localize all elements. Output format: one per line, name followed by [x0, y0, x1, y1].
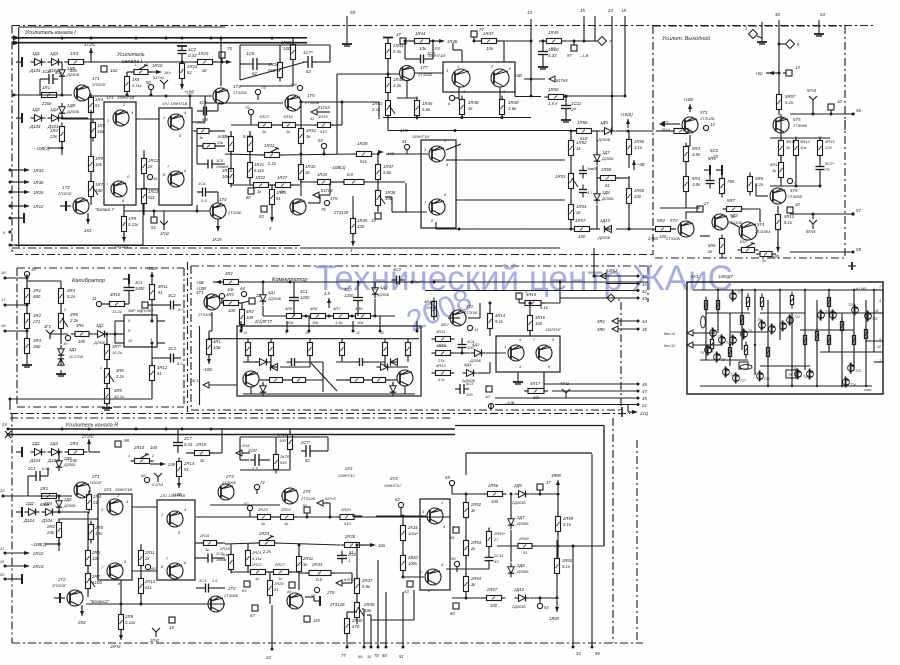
wire 3R12 — [151, 343, 153, 365]
diode 4D10 — [390, 386, 396, 392]
antenna 1Gn2 — [163, 225, 165, 230]
terminal 119 — [304, 616, 310, 622]
node bus R taps — [61, 428, 64, 431]
terminal 82 — [247, 505, 252, 510]
terminal 47b — [537, 484, 543, 490]
wire 1R99 up — [557, 480, 559, 492]
node 5U1 dots — [717, 289, 719, 291]
wire 3R5 — [60, 304, 62, 313]
label +10V 5T1 — [689, 104, 691, 112]
potentiometer 2R10 — [135, 459, 150, 464]
wire 4R15 — [518, 299, 520, 303]
transistor 5U1 Q1 — [710, 330, 717, 337]
wire 2U3 lower base — [403, 576, 424, 578]
wire row131b — [592, 130, 600, 132]
transistor 4T2 — [450, 310, 466, 326]
resistor 5U1 R6 — [710, 340, 713, 349]
resistor 4R8 — [356, 314, 371, 319]
terminal 53a — [261, 206, 267, 212]
wire col629b — [628, 176, 630, 188]
wire field links — [230, 131, 232, 136]
wire emitter bus — [383, 117, 531, 119]
wire row494 — [452, 493, 487, 495]
terminal 20 — [787, 207, 793, 213]
capacitor 1C13 — [579, 189, 587, 191]
wire vertical 30 — [778, 20, 780, 60]
wire 5U1 T mark — [851, 262, 853, 270]
resistor 4R26 — [270, 378, 283, 383]
transistor 4U2b — [536, 345, 552, 361]
wire 4T1 links — [239, 302, 242, 304]
resistor 2R6 — [86, 551, 91, 566]
wire 2T5 base — [210, 504, 280, 506]
capacitor 4C6 — [291, 358, 293, 366]
diode 4D7 — [381, 364, 388, 371]
label K2Gn3 — [317, 500, 323, 506]
resistor 1R49 — [500, 100, 505, 115]
wire 3R4 top — [60, 281, 62, 288]
wire out 41 — [606, 283, 638, 285]
resistor 4R27 — [293, 378, 306, 383]
transistor 1U4b — [491, 69, 509, 87]
capacitor 2C11 — [485, 556, 494, 558]
wire 5U1 columns — [705, 300, 707, 360]
wire K4Gn2 feed — [593, 248, 595, 276]
capacitor 4C3 — [396, 276, 398, 285]
resistor 1R13b — [142, 189, 147, 204]
capacitor 4C5 — [459, 384, 461, 394]
resistor 1R26 — [318, 180, 331, 185]
node pins lower-left — [9, 231, 12, 234]
resistor 2R2 — [57, 523, 62, 538]
wire row429 right — [221, 429, 223, 453]
ground 59 — [346, 40, 348, 44]
terminal 83 — [244, 581, 250, 587]
wire row334 — [109, 333, 124, 335]
wire 3R10 — [102, 303, 110, 305]
wire row229b — [590, 228, 600, 230]
resistor 1R5 — [91, 123, 96, 138]
terminal 68 — [144, 477, 149, 482]
diamond 6 — [607, 294, 615, 302]
resistor 1R4 — [89, 98, 94, 113]
resistor 5R5 — [720, 179, 725, 194]
transistor 5T3 — [712, 214, 728, 230]
terminal 54 — [537, 603, 542, 608]
resistor 3R10 — [110, 302, 125, 307]
transistor 5U1 Q13 — [757, 373, 764, 380]
wire mid bus y96 — [514, 85, 516, 97]
resistor 3R4 — [59, 289, 64, 304]
transistor 1U4a — [452, 69, 470, 87]
capacitor 2C7b — [305, 445, 307, 457]
resistor 1R25 — [270, 190, 275, 205]
capacitor 3C1 — [124, 287, 135, 289]
potentiometer 1R7 — [89, 182, 94, 197]
wire 1C10 — [542, 41, 544, 48]
wire 1U4 tops — [461, 50, 463, 62]
resistor 4R25 — [406, 343, 411, 356]
transistor 5U1 Q24 — [843, 379, 850, 386]
wire bottom row — [124, 210, 210, 212]
resistor 3R1 — [25, 289, 30, 304]
label 210 — [627, 405, 629, 413]
wire 2U3 base — [376, 515, 426, 517]
capacitor 4C7 — [359, 358, 361, 366]
resistor 5R14 — [794, 141, 799, 156]
capacitor 1C12 — [579, 170, 587, 172]
resistor 2R4 — [87, 495, 92, 510]
wire row598 — [452, 597, 487, 599]
wire rows 160-200 — [456, 159, 565, 161]
wire input row2 — [59, 117, 88, 119]
resistor 2R19a — [288, 435, 293, 450]
resistor 1R54 — [569, 205, 574, 220]
transistor 5U1 Q6 — [705, 347, 712, 354]
potentiometer 3R5 — [59, 314, 64, 329]
transistor 1T6 — [290, 199, 306, 215]
terminal 30a — [65, 335, 70, 340]
op-amp 1U2 box — [159, 108, 192, 205]
wire pin23 — [271, 605, 273, 649]
wire top border channel R — [10, 413, 630, 415]
op-amp 1U3 box — [421, 140, 456, 228]
resistor 5U1 R5 — [740, 316, 743, 325]
resistor 4R15 — [525, 301, 541, 306]
terminal 84 — [289, 582, 295, 588]
terminal 41 — [467, 325, 472, 330]
transistor 2T1 — [74, 482, 90, 498]
resistor 4R1 — [207, 340, 212, 355]
resistor 5U1 R3 — [746, 298, 749, 307]
diamond 7 — [598, 37, 607, 46]
wire 1R8 — [123, 205, 125, 216]
potentiometer 3R8 — [105, 369, 110, 384]
terminal 45a — [488, 403, 493, 408]
terminal 8 — [449, 95, 454, 100]
resistor 1R19 — [291, 45, 296, 60]
resistor 2R58 — [518, 544, 532, 549]
terminal 65 — [321, 143, 326, 148]
resistor 2R52 — [464, 503, 469, 518]
wire right border output amp block — [844, 26, 846, 120]
resistor 2R23 — [258, 515, 271, 520]
resistor 4R11 — [436, 337, 451, 342]
resistor 1R17 — [248, 137, 253, 152]
resistor 1R9 — [89, 157, 94, 172]
wire arrow 10a — [360, 544, 372, 546]
wire top bus 2 — [14, 42, 307, 44]
transistor 2T3 — [218, 484, 234, 500]
wire 5U1 rows — [706, 312, 750, 314]
node pin 1R33 — [9, 169, 12, 172]
diamond 1 — [749, 30, 758, 39]
capacitor 4C4 — [458, 344, 467, 346]
wire 1U3 base — [386, 153, 428, 155]
terminal 56 — [454, 561, 459, 566]
transistor 2U1a — [107, 499, 123, 515]
ground input lower — [16, 117, 22, 119]
transistor 1T3 — [213, 88, 229, 104]
label +10V — [181, 79, 183, 86]
transistor 5U1 Q8 — [714, 354, 721, 361]
terminal 74a — [255, 89, 260, 94]
wire vertical 59 — [346, 16, 348, 40]
antenna 4Gn2 — [565, 393, 567, 398]
wire out 40 — [594, 275, 638, 277]
resistor 5U1 R16 — [827, 298, 830, 307]
wire vertical 24 — [611, 16, 613, 131]
diode 1D9 — [605, 128, 612, 135]
resistor 4R3 — [224, 301, 239, 306]
wire comm left border col — [199, 326, 201, 405]
terminal 10b — [828, 104, 834, 110]
node pin 2R12 — [4, 552, 7, 555]
wire col357 — [356, 545, 358, 578]
resistor 2R59 — [556, 517, 561, 532]
transistor 1U1b — [111, 181, 127, 197]
resistor 5U1 R18 — [740, 365, 752, 370]
diode 2D10 — [519, 595, 526, 602]
diamond 5 — [786, 40, 795, 49]
resistor 1R46 — [386, 78, 391, 93]
label 219GT7 box — [237, 326, 421, 396]
ground 4U2 — [517, 372, 519, 378]
transistor 5U1 Q9 — [759, 322, 766, 329]
wire left border channel I — [11, 26, 13, 253]
terminal 5a — [142, 302, 148, 308]
capacitor 4C2 — [353, 297, 363, 299]
wire 1T5 base — [205, 102, 283, 104]
wire 1R47 out — [504, 40, 531, 42]
terminal 51a — [404, 144, 409, 149]
resistor 3R6 — [75, 332, 89, 337]
resistor 3R3 — [25, 339, 30, 354]
resistor 2R25 — [268, 581, 273, 596]
node pin18 — [4, 330, 7, 333]
diode 2D8 — [508, 567, 514, 573]
potentiometer 5R57 — [742, 248, 755, 253]
diode 1D8b — [594, 194, 600, 200]
wire row114 — [790, 113, 855, 115]
resistor 1R34 — [344, 180, 364, 185]
resistor 2R27 — [274, 570, 289, 575]
wire out 47 — [552, 390, 638, 392]
terminal 76 — [324, 200, 329, 205]
resistor 1R48 — [460, 100, 465, 115]
resistor 5R15 — [818, 141, 823, 156]
op-amp 2U2 box — [157, 500, 195, 580]
wire 1C3 — [197, 110, 201, 112]
capacitor 1C3 — [203, 107, 205, 116]
wire vertical 13 — [530, 19, 532, 97]
ground 3D1 — [60, 370, 62, 374]
diode 4D5 — [260, 359, 267, 366]
resistor 1R1 — [42, 93, 57, 98]
transistor 1T5 — [285, 95, 301, 111]
resistor 4R16 — [528, 316, 533, 331]
transistor 4T3 — [243, 371, 259, 387]
node out 21 — [637, 403, 640, 406]
wire bus R1 — [8, 428, 455, 430]
wire row183 — [300, 181, 317, 183]
ic 4U2 box — [496, 336, 560, 372]
wire col144 — [143, 150, 145, 158]
terminal 75 — [219, 52, 225, 58]
resistor 1R44 — [415, 39, 430, 44]
resistor 2R9 — [119, 615, 124, 630]
resistor 4R14 — [488, 314, 493, 329]
ic 3U1 box — [124, 315, 157, 347]
resistor 5U1 R7 — [728, 348, 731, 357]
capacitor 3C3 — [170, 354, 172, 363]
resistor 2R53 — [464, 541, 469, 556]
potentiometer 1R53 — [569, 174, 574, 189]
resistor 4R5 — [287, 314, 302, 319]
capacitor 1C9 — [420, 55, 422, 64]
capacitor 1C5 — [207, 160, 209, 169]
terminal 97 — [571, 45, 577, 51]
diode 1D2 — [35, 115, 42, 122]
capacitor 3C2 — [170, 301, 172, 310]
wire top bus 1 — [14, 37, 307, 39]
resistor 2R5 — [89, 525, 94, 540]
transistor 5U1 Q4 — [730, 337, 737, 344]
wire pin50 — [385, 592, 387, 647]
wire comm bottom rows — [259, 379, 269, 381]
node pin 1R26 — [9, 191, 12, 194]
transistor 4T4 — [397, 370, 413, 386]
wire main row y95 — [14, 94, 72, 96]
wire row598b — [530, 597, 557, 599]
terminal 62 — [398, 502, 403, 507]
diode 1D3 — [52, 59, 59, 66]
resistor 1R49b — [547, 39, 562, 44]
resistor 5U1 R17 — [864, 330, 867, 339]
transistor 1U2a — [168, 114, 184, 130]
transistor 5T4 — [739, 222, 757, 240]
ground input top — [16, 61, 22, 63]
resistor 2R55 — [487, 532, 492, 547]
wire cluster 5T2-4 — [685, 212, 687, 219]
transistor 1U1a — [113, 110, 129, 126]
transistor 1T2 — [73, 198, 89, 214]
terminal 76b — [314, 587, 319, 592]
resistor 1R47 — [482, 39, 497, 44]
wire bus y118 — [62, 118, 95, 120]
transistor 5U1 Q18 — [795, 371, 802, 378]
wire comm mid col — [489, 329, 491, 336]
transistor 5U1 Q7 — [730, 293, 737, 300]
wire RC bottom — [240, 85, 293, 87]
terminal 67 — [252, 605, 258, 611]
capacitor 2C7a — [173, 442, 183, 444]
wire 4T1 col down — [211, 312, 213, 331]
wire vertical 18 — [624, 16, 626, 96]
transistor 4U2a — [508, 345, 524, 361]
wire 1T4 down — [217, 219, 219, 228]
wire row494b — [530, 493, 558, 495]
potentiometer 2R24 — [260, 541, 275, 546]
wire col557 — [556, 540, 558, 558]
wire col91 — [90, 110, 92, 156]
wire col629 — [628, 131, 630, 139]
transistor 5T6 — [770, 188, 786, 204]
transistor 5U1 Q22 — [848, 365, 855, 372]
node bus taps — [61, 37, 64, 40]
wire out 21 — [495, 404, 638, 406]
terminal 13c — [703, 125, 708, 130]
resistor 2R56 — [488, 492, 503, 497]
resistor 1R60 — [627, 189, 632, 204]
wire row316 — [263, 315, 286, 317]
transistor 5U1 Q2 — [723, 369, 730, 376]
wire 3R7 col — [106, 334, 108, 344]
wire row186 — [770, 185, 820, 187]
wire bottom border channel R — [12, 642, 643, 644]
diode 2D5 — [56, 461, 62, 467]
wire comm inner rail — [208, 338, 419, 340]
wire pot elbow — [127, 71, 134, 73]
resistor 2R60 — [555, 559, 560, 574]
transistor 5U1 Q10 — [769, 326, 776, 333]
resistor 5R9 — [760, 252, 772, 257]
resistor 3R11 — [150, 285, 155, 300]
wire 1C4 — [197, 191, 200, 193]
resistor 4R7 — [334, 314, 349, 319]
resistor 1R16d — [197, 129, 209, 134]
wire col389 — [387, 59, 389, 77]
wire 5U1 bottom rail — [700, 385, 872, 387]
resistor 5U1 R10 — [803, 336, 806, 345]
wire comm pins top — [240, 321, 242, 331]
resistor 3R7 — [105, 345, 110, 360]
wire pin16 — [370, 620, 372, 647]
wire left border channel R — [11, 414, 13, 644]
ground 1T7 top — [383, 37, 393, 39]
terminal 98 — [115, 441, 121, 447]
wire input rowR2 — [53, 511, 88, 513]
resistor 1R51 — [299, 129, 304, 144]
resistor 5R07 — [777, 95, 782, 110]
resistor 1R58a — [577, 129, 592, 134]
wire col27 — [26, 277, 28, 288]
resistor 1R35 — [351, 219, 356, 234]
terminal 89 — [145, 564, 150, 569]
capacitor 5C4 — [706, 180, 715, 182]
resistor 4R23 — [340, 343, 345, 356]
resistor 2R15 — [195, 451, 210, 456]
ground conn1 — [761, 38, 763, 42]
wire col686 — [685, 162, 687, 176]
transistor 1T1 — [74, 85, 90, 101]
wire 4D4 — [478, 372, 490, 374]
wire out 48 — [544, 383, 638, 385]
op-amp 1U1 box — [104, 102, 136, 205]
capacitor 2C1 — [35, 471, 37, 481]
ground 2T6 — [305, 596, 314, 598]
resistor 1R18c — [283, 123, 296, 128]
resistor 5R12 — [779, 163, 784, 178]
capacitor 2C6 — [254, 454, 256, 466]
terminal 44a — [241, 291, 246, 296]
wire 5R13 down — [777, 230, 779, 248]
wire main row154 — [225, 154, 264, 155]
wire out 35 — [495, 397, 638, 399]
resistor 2R3 — [69, 450, 84, 455]
wire row62 — [95, 61, 197, 63]
wire to 2T2/C — [88, 440, 90, 452]
